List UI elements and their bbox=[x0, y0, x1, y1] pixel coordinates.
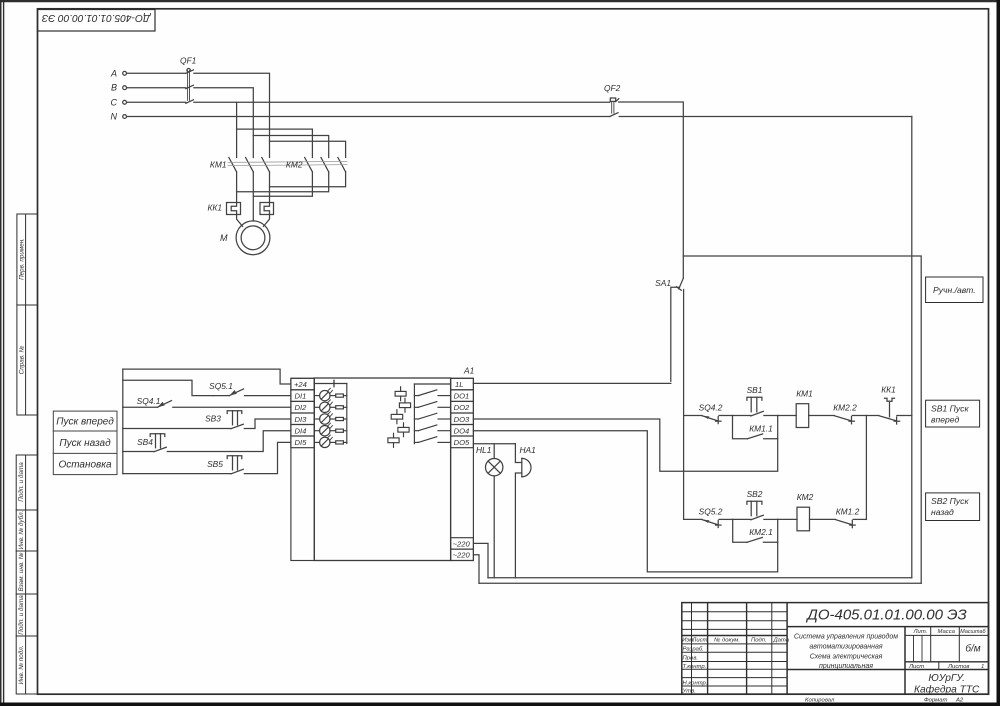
svg-text:SQ4.1: SQ4.1 bbox=[137, 396, 161, 406]
svg-text:автоматизированная: автоматизированная bbox=[809, 644, 882, 651]
svg-text:Система управления приводом: Система управления приводом bbox=[794, 633, 898, 641]
top-left designation stamp bbox=[38, 10, 156, 32]
wire rung1 to KK1 bbox=[866, 415, 879, 417]
svg-text:SB1: SB1 bbox=[747, 385, 763, 395]
push button SB4 bbox=[150, 431, 291, 452]
svg-text:Лист: Лист bbox=[908, 664, 924, 670]
contactor KM2 main contacts bbox=[305, 158, 346, 172]
svg-text:DO1: DO1 bbox=[454, 392, 470, 401]
svg-text:Кафедра ТТС: Кафедра ТТС bbox=[914, 683, 980, 695]
wire KM1 pole B down to motor bbox=[252, 172, 254, 221]
svg-text:Утв.: Утв. bbox=[682, 689, 696, 695]
node A terminal bbox=[123, 71, 127, 75]
node B terminal bbox=[123, 86, 127, 90]
A1 relay coil K3 bbox=[391, 410, 403, 424]
svg-text:Формат: Формат bbox=[924, 698, 947, 704]
motor M bbox=[236, 221, 270, 255]
svg-text:Схема электрическая: Схема электрическая bbox=[810, 654, 883, 661]
contact KM1.1 holding branch bbox=[733, 416, 778, 439]
wire KM2 pole2 return to C bbox=[237, 172, 329, 192]
A1 output contact DO3 bbox=[414, 413, 450, 419]
wire rung2 to SB2 bbox=[733, 518, 751, 520]
breaker QF2 bbox=[610, 98, 619, 117]
svg-text:КМ2: КМ2 bbox=[286, 160, 303, 170]
svg-text:Лист: Лист bbox=[691, 638, 707, 644]
svg-text:Листов: Листов bbox=[947, 664, 969, 670]
wire rung1 to KM1 coil bbox=[778, 415, 797, 417]
wire coil to KM1.2 bbox=[810, 518, 836, 520]
svg-text:ДО-405.01.01.00.00 ЭЗ: ДО-405.01.01.00.00 ЭЗ bbox=[805, 607, 966, 624]
A1 output contact DO2 bbox=[414, 402, 450, 408]
svg-text:HA1: HA1 bbox=[520, 445, 536, 455]
push button SB3 bbox=[227, 411, 291, 429]
wire phase bus bbox=[479, 582, 921, 584]
svg-text:Масса: Масса bbox=[938, 629, 956, 635]
linkage lines KM1 KM2 bbox=[228, 161, 347, 165]
svg-text:КМ1.2: КМ1.2 bbox=[836, 506, 860, 516]
wire branch to phase bus bbox=[683, 256, 921, 583]
svg-text:С: С bbox=[111, 97, 118, 107]
left margin attribute boxes bbox=[17, 214, 38, 305]
wire DO4 auto route bbox=[473, 431, 777, 572]
A1 relay coil K4 bbox=[398, 423, 409, 437]
lamp HL1 bbox=[486, 459, 503, 476]
svg-text:ДО-405.01.01.00.00 ЭЗ: ДО-405.01.01.00.00 ЭЗ bbox=[41, 12, 151, 23]
breaker QF1 bbox=[186, 69, 194, 104]
label box SB1 Пуск вперед bbox=[926, 400, 980, 427]
contactor coil KM2 bbox=[797, 507, 810, 531]
svg-text:SB2: SB2 bbox=[747, 489, 763, 499]
wire SQ4.1 branch bbox=[123, 406, 158, 408]
thermal relay KK1 heaters bbox=[227, 203, 274, 215]
wire KM2 pole1 return to B bbox=[253, 172, 312, 196]
A1 optocoupler DI3 bbox=[314, 412, 347, 425]
svg-text:QF2: QF2 bbox=[604, 83, 621, 93]
A1 relay coil K2 bbox=[399, 398, 410, 412]
wire KK1 to motor right bbox=[263, 215, 269, 227]
push button SB1 bbox=[747, 397, 778, 416]
wire HA1 drop bottom bbox=[515, 473, 521, 578]
A1 left terminal strip bbox=[291, 378, 314, 560]
svg-text:Дата: Дата bbox=[773, 638, 790, 644]
svg-text:SQ5.1: SQ5.1 bbox=[209, 381, 233, 391]
svg-text:DI3: DI3 bbox=[295, 415, 308, 424]
wire HL1 drop top bbox=[493, 444, 495, 459]
svg-text:SB5: SB5 bbox=[207, 459, 223, 469]
svg-text:SQ5.2: SQ5.2 bbox=[699, 506, 723, 516]
svg-text:1: 1 bbox=[981, 664, 984, 670]
limit switch contact SQ5.2 bbox=[702, 519, 733, 527]
wire SQ5.1 branch bbox=[123, 380, 214, 395]
limit switch contact SQ4.2 bbox=[702, 416, 733, 424]
svg-text:КМ2: КМ2 bbox=[797, 492, 814, 502]
svg-text:SQ4.2: SQ4.2 bbox=[699, 403, 723, 413]
svg-text:А2: А2 bbox=[955, 698, 964, 704]
wire N down right side bbox=[911, 117, 913, 578]
title block grid bbox=[682, 603, 989, 695]
wire phase A to QF1 bbox=[127, 72, 186, 74]
svg-text:Пров.: Пров. bbox=[683, 656, 699, 662]
contact KM1.2 NC bbox=[836, 519, 867, 527]
svg-text:DI5: DI5 bbox=[295, 438, 308, 447]
A1 output contact rail bbox=[414, 384, 450, 444]
svg-text:SB1 Пуск: SB1 Пуск bbox=[931, 404, 969, 414]
wire phase B to QF1 bbox=[127, 87, 186, 89]
wire rung1 to SB1 bbox=[733, 415, 751, 417]
controller A1 body bbox=[314, 378, 450, 561]
contact KM2.1 holding branch bbox=[733, 519, 778, 542]
wire neutral bus bbox=[488, 577, 912, 579]
svg-text:QF1: QF1 bbox=[180, 56, 196, 66]
svg-text:КМ2.2: КМ2.2 bbox=[833, 403, 857, 413]
svg-text:DO4: DO4 bbox=[454, 426, 470, 435]
wire QF2 N to right bbox=[619, 116, 912, 118]
wire coil to KM2.2 bbox=[809, 415, 835, 417]
push button SB2 bbox=[747, 501, 778, 520]
wire SB3 branch bbox=[123, 428, 231, 430]
function label box bbox=[53, 411, 117, 475]
svg-text:Т.контр.: Т.контр. bbox=[683, 664, 707, 670]
wire QF1-C long line to QF2 bbox=[194, 101, 610, 103]
wire left rail bbox=[122, 369, 124, 474]
wire 220 line2 bbox=[474, 555, 479, 584]
svg-text:вперед: вперед bbox=[931, 415, 959, 425]
A1 relay coil K5 bbox=[388, 433, 399, 447]
wire C branch to KM2 pole1 bbox=[237, 129, 313, 157]
contactor coil KM1 bbox=[796, 404, 809, 428]
svg-text:~220: ~220 bbox=[453, 551, 471, 560]
svg-text:Остановка: Остановка bbox=[58, 460, 112, 471]
wire QF1-B to drop bbox=[194, 88, 253, 158]
svg-text:Лит.: Лит. bbox=[913, 629, 928, 635]
wire QF1-A to drop bbox=[194, 73, 270, 157]
contactor KM1 main contacts bbox=[229, 158, 270, 172]
svg-text:DI2: DI2 bbox=[295, 403, 308, 412]
svg-text:1L: 1L bbox=[455, 380, 463, 389]
svg-text:КК1: КК1 bbox=[881, 385, 896, 395]
switch SA1 bbox=[671, 278, 684, 519]
svg-text:Подп. и дата: Подп. и дата bbox=[17, 595, 25, 635]
wire HA1 stem bbox=[515, 444, 521, 463]
wire rung1 start bbox=[684, 415, 702, 417]
wire DO5 to HL1 HA1 bbox=[473, 443, 515, 445]
wire rung2 to KM2 coil bbox=[778, 518, 797, 520]
wire KM2 pole3 return to A bbox=[270, 172, 346, 187]
wire N line bbox=[127, 116, 610, 118]
svg-text:Справ. №: Справ. № bbox=[19, 346, 26, 375]
svg-text:+24: +24 bbox=[294, 380, 307, 389]
wire KM1 pole C down to KK1 bbox=[236, 172, 238, 203]
svg-text:№ докум.: № докум. bbox=[714, 637, 740, 644]
limit switch SQ5.1 bbox=[213, 389, 291, 396]
svg-text:~220: ~220 bbox=[453, 539, 471, 548]
A1 optocoupler DI4 bbox=[314, 423, 347, 436]
svg-text:КМ2.1: КМ2.1 bbox=[749, 527, 773, 537]
svg-text:DO2: DO2 bbox=[454, 403, 470, 412]
wire SB4 branch bbox=[123, 451, 154, 453]
svg-text:A1: A1 bbox=[463, 366, 474, 376]
thermal contact KK1 bbox=[879, 398, 912, 424]
A1 internal +24 rail bbox=[314, 380, 347, 443]
svg-text:Разраб.: Разраб. bbox=[683, 647, 704, 653]
svg-text:Инв. № дубл.: Инв. № дубл. bbox=[17, 511, 25, 550]
wire DO3 auto route bbox=[473, 419, 777, 471]
wire rung2 up link bbox=[865, 416, 867, 520]
wire 220 line1 bbox=[474, 543, 488, 577]
svg-text:Масштаб: Масштаб bbox=[960, 629, 986, 635]
wire HL1 drop bottom bbox=[493, 476, 495, 578]
svg-text:ЮУрГУ.: ЮУрГУ. bbox=[928, 673, 965, 684]
svg-text:DO5: DO5 bbox=[454, 438, 470, 447]
svg-text:DO3: DO3 bbox=[454, 415, 470, 424]
sounder HA1 bbox=[522, 458, 531, 476]
wire QF2 top to down corner bbox=[619, 102, 684, 278]
A1 optocoupler DI5 bbox=[314, 435, 347, 448]
wire B branch to KM2 pole2 bbox=[253, 136, 328, 158]
wire SB5 branch bbox=[123, 473, 231, 475]
svg-text:принципиальная: принципиальная bbox=[819, 663, 873, 670]
label box Ручн./авт. bbox=[926, 277, 983, 303]
A1 output contact DO4 bbox=[414, 425, 450, 431]
svg-text:КМ1: КМ1 bbox=[210, 160, 227, 170]
wire KK1 to motor left bbox=[237, 215, 243, 227]
wire A branch to KM2 pole3 bbox=[270, 141, 346, 157]
page border bbox=[0, 0, 1000, 2]
svg-text:Взам. инв. №: Взам. инв. № bbox=[18, 552, 25, 591]
svg-text:Инв. № подл.: Инв. № подл. bbox=[17, 645, 25, 684]
svg-text:Перв. примен.: Перв. примен. bbox=[19, 238, 26, 280]
svg-text:М: М bbox=[220, 233, 228, 243]
label box SB2 Пуск назад bbox=[926, 493, 980, 521]
wire +24 feed loop bbox=[123, 369, 291, 384]
svg-text:КМ1.1: КМ1.1 bbox=[749, 424, 773, 434]
wire KM1 pole A down to KK1 bbox=[269, 172, 271, 203]
push button SB5 bbox=[227, 442, 291, 473]
A1 output contact DO5 bbox=[414, 437, 450, 443]
limit switch SQ4.1 bbox=[157, 401, 291, 408]
svg-text:б/м: б/м bbox=[965, 643, 980, 655]
svg-text:Ручн./авт.: Ручн./авт. bbox=[933, 285, 976, 295]
svg-text:HL1: HL1 bbox=[476, 445, 491, 455]
wire C drop bbox=[236, 102, 238, 157]
contact KM2.2 NC bbox=[834, 416, 866, 424]
svg-text:SB2 Пуск: SB2 Пуск bbox=[931, 496, 969, 506]
svg-text:КК1: КК1 bbox=[207, 203, 222, 213]
svg-text:DI1: DI1 bbox=[295, 392, 307, 401]
A1 relay coil K1 bbox=[395, 387, 406, 401]
A1 output contact DO1 bbox=[414, 390, 450, 396]
svg-text:Подп. и дата: Подп. и дата bbox=[17, 462, 25, 502]
svg-text:назад: назад bbox=[931, 507, 954, 517]
wire 1L from SA1 bbox=[473, 382, 670, 384]
svg-text:Н.контр.: Н.контр. bbox=[683, 681, 708, 687]
svg-text:Пуск вперед: Пуск вперед bbox=[56, 417, 114, 428]
node C terminal bbox=[123, 100, 127, 104]
wire rung2 start bbox=[684, 518, 702, 520]
svg-text:А: А bbox=[110, 68, 117, 78]
A1 optocoupler DI2 bbox=[314, 400, 347, 413]
svg-text:Копировал: Копировал bbox=[805, 698, 835, 704]
svg-text:SB3: SB3 bbox=[205, 414, 221, 424]
A1 right terminal strip bbox=[451, 378, 474, 560]
svg-text:Подп.: Подп. bbox=[751, 638, 767, 644]
wire phase C to QF1 bbox=[127, 101, 186, 103]
node N terminal bbox=[123, 115, 127, 119]
svg-text:КМ1: КМ1 bbox=[796, 389, 813, 399]
A1 optocoupler DI1 bbox=[314, 388, 347, 401]
svg-text:SB4: SB4 bbox=[137, 437, 153, 447]
svg-text:SA1: SA1 bbox=[655, 278, 671, 288]
svg-text:Пуск назад: Пуск назад bbox=[59, 438, 111, 449]
svg-text:N: N bbox=[111, 112, 118, 122]
svg-text:В: В bbox=[111, 83, 117, 93]
svg-text:DI4: DI4 bbox=[295, 426, 307, 435]
